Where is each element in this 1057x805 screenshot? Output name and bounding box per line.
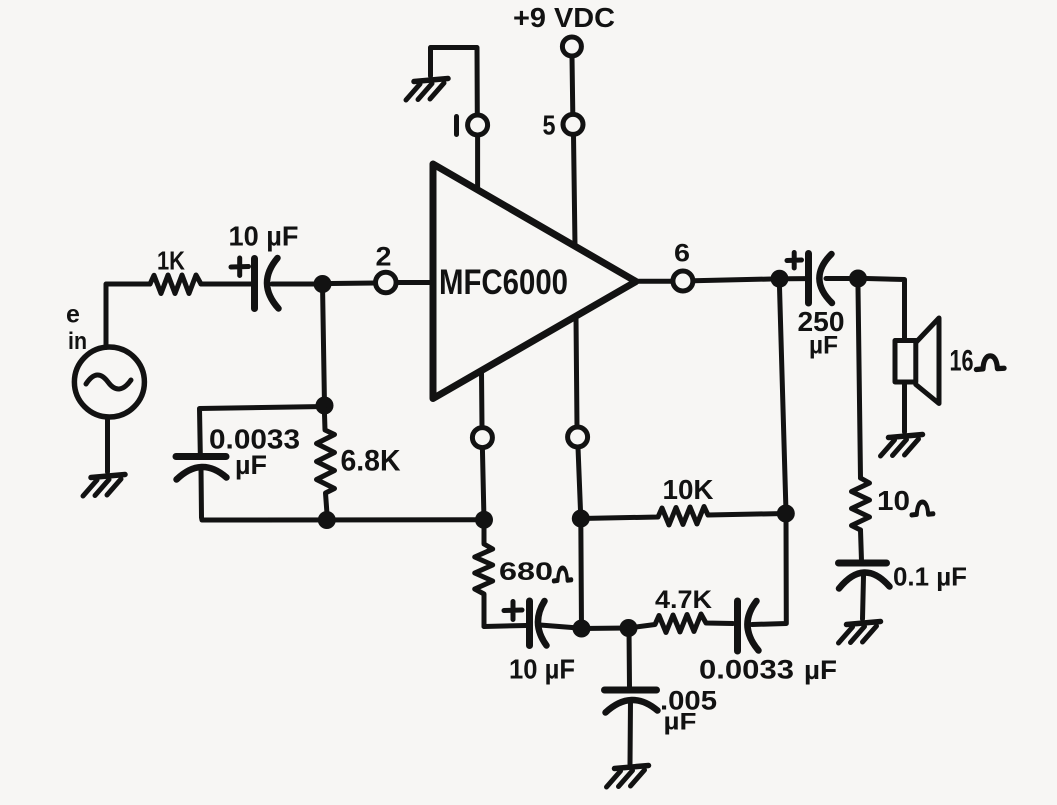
wire cap to node J bbox=[826, 276, 849, 281]
wire node A down to node B bbox=[323, 284, 325, 406]
wire pin 6 to node I bbox=[693, 279, 771, 281]
svg-text:µF: µF bbox=[235, 450, 267, 480]
svg-text:0.1 µF: 0.1 µF bbox=[893, 562, 967, 592]
capacitor 10uF bottom bbox=[526, 601, 533, 646]
wire 680 to 10uF cap bbox=[484, 626, 526, 627]
ground (0.1 uF) bbox=[839, 622, 881, 644]
wire 1K to cap bbox=[201, 282, 252, 287]
svg-text:10K: 10K bbox=[663, 474, 714, 505]
svg-text:5: 5 bbox=[543, 110, 556, 141]
resistor 6.8K bbox=[317, 414, 335, 511]
svg-text:µF: µF bbox=[664, 709, 697, 736]
pin 2 circle bbox=[376, 272, 397, 293]
node J dot bbox=[849, 270, 867, 288]
svg-text:10 µF: 10 µF bbox=[509, 654, 575, 685]
node A dot bbox=[314, 275, 332, 293]
speaker bbox=[895, 341, 916, 383]
svg-text:µF: µF bbox=[804, 655, 837, 685]
omega (16) bbox=[976, 356, 1004, 370]
resistor 680 ohm bbox=[475, 520, 493, 627]
wire node J to speaker bbox=[867, 279, 905, 340]
capacitor 10uF input bbox=[251, 259, 258, 309]
wire node G to .005 cap bbox=[627, 628, 633, 688]
pin 6 circle bbox=[673, 271, 693, 291]
node E dot bbox=[572, 510, 590, 528]
svg-text:680: 680 bbox=[499, 558, 553, 586]
ground (pin 1) bbox=[406, 79, 448, 101]
+9 VDC terminal circle bbox=[562, 37, 581, 56]
capacitor 250uF bbox=[805, 254, 812, 304]
resistor 10 ohm bbox=[852, 478, 870, 530]
ground (.005) bbox=[607, 766, 649, 788]
ground (source) bbox=[83, 475, 125, 497]
wire cap to right riser bbox=[752, 514, 786, 625]
node B dot bbox=[316, 397, 334, 415]
op-amp U1 MFC6000 triangle bbox=[433, 164, 636, 399]
svg-text:MFC6000: MFC6000 bbox=[439, 263, 568, 302]
svg-text:6: 6 bbox=[674, 240, 690, 268]
pin 3 circle (below op-amp left) bbox=[472, 428, 492, 448]
plus sign (10uF bottom) bbox=[504, 602, 522, 620]
svg-text:10 µF: 10 µF bbox=[229, 221, 299, 252]
wire node F to node G bbox=[582, 626, 629, 632]
resistor 10K bbox=[581, 507, 786, 526]
resistor 1K bbox=[150, 275, 201, 294]
capacitor .005 uF bbox=[605, 687, 657, 694]
capacitor 0.1 uF bbox=[839, 560, 887, 567]
pin 4 circle (below op-amp right) bbox=[568, 427, 588, 447]
node I dot bbox=[771, 270, 789, 288]
wire op-amp bottom edge to pin 3 bbox=[479, 372, 485, 427]
wire op-amp bottom edge to pin 4 bbox=[576, 318, 577, 427]
node F dot bbox=[573, 620, 591, 638]
svg-text:6.8K: 6.8K bbox=[341, 445, 401, 478]
omega (680) bbox=[554, 568, 572, 581]
wire node I to 250uF cap bbox=[788, 276, 805, 281]
plus sign (250uF) bbox=[787, 253, 802, 269]
svg-text:10: 10 bbox=[877, 485, 910, 516]
ground (speaker) bbox=[881, 435, 923, 457]
wire pin 1 to op-amp top edge bbox=[475, 135, 480, 190]
wire node A to pin 2 bbox=[331, 281, 375, 287]
capacitor 0.0033 uF (bottom) bbox=[734, 601, 741, 651]
signal source circle bbox=[74, 347, 144, 417]
omega (10) bbox=[912, 502, 934, 515]
wire cap to node A bbox=[272, 282, 314, 287]
svg-text:4.7K: 4.7K bbox=[655, 586, 712, 614]
wire source bottom to ground bbox=[105, 417, 110, 472]
svg-text:e: e bbox=[66, 301, 80, 329]
wire .005 to ground bbox=[628, 701, 634, 764]
node G dot bbox=[620, 619, 638, 637]
wire speaker to ground bbox=[902, 383, 907, 433]
wire node J down to 10 ohm bbox=[858, 287, 861, 478]
wire pin 3 to node D bbox=[482, 448, 484, 520]
node C dot bbox=[318, 511, 336, 529]
svg-text:+9 VDC: +9 VDC bbox=[513, 2, 615, 33]
wire 10 ohm to 0.1 cap bbox=[861, 530, 862, 561]
wire pin 4 to node E bbox=[578, 447, 581, 518]
node H dot bbox=[777, 505, 795, 523]
pin 5 circle bbox=[563, 114, 583, 134]
resistor 4.7K bbox=[629, 614, 734, 633]
pin 1 label bbox=[454, 117, 459, 135]
wire pin 5 to op-amp top edge bbox=[574, 135, 576, 246]
svg-text:µF: µF bbox=[809, 332, 838, 360]
wire source top to 1K bbox=[106, 284, 150, 348]
pin 1 circle bbox=[468, 115, 488, 135]
wire pin 2 to op-amp bbox=[396, 280, 430, 285]
wire cap to bottom rail to node C and D bbox=[201, 468, 484, 520]
svg-text:0.0033: 0.0033 bbox=[699, 655, 794, 685]
node D dot bbox=[475, 511, 493, 529]
svg-text:16: 16 bbox=[950, 345, 974, 378]
svg-text:1K: 1K bbox=[157, 246, 185, 276]
wire cap to node F bbox=[540, 625, 582, 628]
wire op-amp output to pin 6 bbox=[639, 279, 672, 284]
capacitor 0.0033 uF (left) bbox=[176, 453, 226, 460]
sine wave bbox=[86, 375, 131, 389]
wire node E to node F bbox=[578, 519, 584, 629]
plus sign (input cap) bbox=[231, 258, 249, 276]
wire terminal to pin 5 bbox=[570, 57, 576, 115]
wire node I down to node H bbox=[780, 287, 786, 505]
wire pin 1 loop to ground bbox=[431, 48, 478, 116]
svg-text:in: in bbox=[68, 328, 87, 355]
svg-text:2: 2 bbox=[376, 242, 392, 272]
wire node B to 0.0033 cap bbox=[200, 407, 325, 455]
wire 0.1 cap to ground bbox=[863, 576, 864, 619]
